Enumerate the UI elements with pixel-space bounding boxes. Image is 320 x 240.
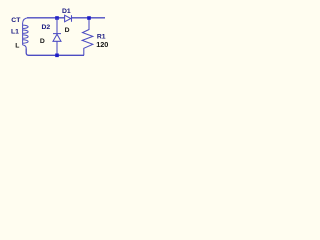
wire top-left segment <box>27 17 65 19</box>
node junction bottom of D2 <box>55 54 59 58</box>
inductor L1 <box>23 18 29 49</box>
svg-text:D2: D2 <box>42 24 51 31</box>
resistor R1 <box>82 18 93 56</box>
svg-text:120: 120 <box>96 40 108 49</box>
diode D2 <box>53 18 61 56</box>
wire bottom segment <box>26 48 84 55</box>
wire top-right segment <box>72 17 105 19</box>
node junction top of R1 <box>87 16 91 20</box>
node junction top of D2 <box>55 16 59 20</box>
svg-text:D: D <box>65 27 70 34</box>
svg-text:D1: D1 <box>62 8 71 15</box>
diode D1 <box>65 15 72 22</box>
svg-text:L1: L1 <box>11 29 19 36</box>
svg-text:D: D <box>40 38 45 45</box>
svg-text:L: L <box>15 42 19 49</box>
svg-text:CT: CT <box>11 17 21 24</box>
